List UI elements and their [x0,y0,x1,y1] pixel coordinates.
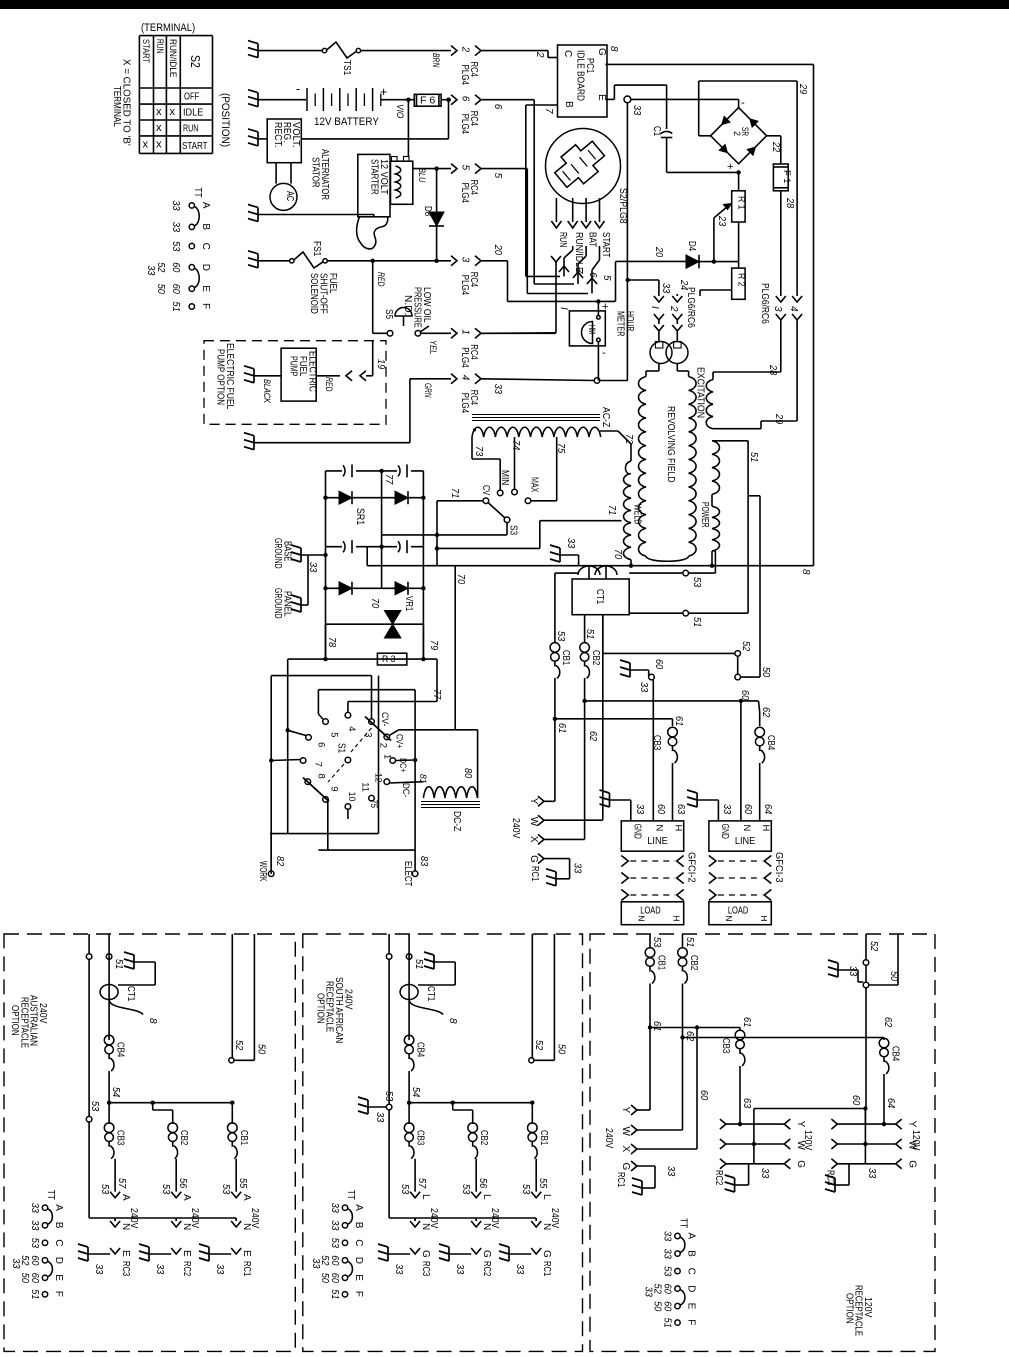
svg-text:x: x [156,139,162,151]
svg-text:8: 8 [608,46,619,52]
svg-text:8: 8 [147,1018,158,1024]
svg-text:AC: AC [284,191,295,201]
svg-text:C: C [200,243,211,250]
svg-text:RUN: RUN [155,39,166,53]
svg-text:START: START [141,39,152,63]
svg-text:52: 52 [233,1040,244,1051]
svg-text:OPTION: OPTION [9,1005,20,1036]
svg-text:G: G [596,48,607,56]
svg-text:H: H [671,916,680,922]
svg-text:51: 51 [684,937,695,947]
svg-text:CB3: CB3 [415,1130,426,1146]
svg-text:F: F [53,1291,64,1297]
svg-text:60: 60 [742,804,753,815]
svg-text:START: START [600,232,611,258]
svg-text:S2: S2 [188,55,202,68]
svg-text:33: 33 [634,804,645,815]
svg-text:51: 51 [413,959,424,969]
svg-text:GND: GND [631,824,642,839]
svg-text:GFCI-3: GFCI-3 [773,852,784,883]
svg-text:+: + [602,301,609,313]
svg-text:REVOLVING FIELD: REVOLVING FIELD [665,406,676,483]
svg-text:54: 54 [410,1087,421,1098]
svg-text:33: 33 [393,1264,404,1275]
svg-text:6: 6 [316,742,327,747]
svg-text:CB2: CB2 [688,955,699,971]
svg-text:54: 54 [110,1087,121,1098]
svg-text:PLG4: PLG4 [459,275,470,296]
svg-text:TERMINAL: TERMINAL [111,86,122,127]
svg-text:61: 61 [741,1017,752,1027]
svg-text:-: - [296,82,300,96]
svg-text:A: A [120,1194,131,1201]
svg-text:S1: S1 [335,743,346,754]
svg-text:33: 33 [145,265,156,276]
svg-text:GRN: GRN [423,383,434,398]
svg-text:x: x [156,122,162,134]
svg-text:33: 33 [638,682,649,693]
svg-text:GROUND: GROUND [272,588,283,619]
svg-text:BLACK: BLACK [262,379,273,404]
svg-text:N: N [636,916,645,922]
svg-text:62: 62 [882,1017,893,1028]
svg-text:33: 33 [662,1249,673,1260]
svg-text:F 1: F 1 [782,170,792,184]
svg-text:METER: METER [615,311,626,337]
svg-text:51: 51 [29,1289,40,1299]
svg-text:75: 75 [369,799,379,808]
svg-text:57: 57 [116,1178,127,1189]
svg-text:A: A [200,202,211,209]
svg-text:1: 1 [382,754,393,759]
svg-text:2: 2 [460,46,471,53]
svg-text:WORK: WORK [257,861,268,882]
svg-text:-: - [602,347,606,359]
svg-text:Y: Y [620,1107,631,1114]
svg-text:RED: RED [376,272,387,287]
svg-text:52: 52 [155,262,166,273]
svg-text:50: 50 [155,284,166,295]
svg-text:SOLENOID: SOLENOID [308,273,319,314]
svg-text:B: B [563,101,574,108]
svg-text:LINE: LINE [647,836,668,847]
svg-text:RC2: RC2 [481,1261,492,1277]
svg-text:33: 33 [847,966,858,977]
svg-text:73: 73 [473,446,484,457]
svg-text:CB4: CB4 [765,735,776,751]
svg-text:R 2: R 2 [737,273,747,287]
svg-text:F: F [353,1291,364,1297]
svg-text:60: 60 [655,804,666,815]
svg-text:S3: S3 [508,525,519,536]
svg-text:(POSITION): (POSITION) [219,93,231,147]
svg-text:F 6: F 6 [420,96,436,107]
svg-text:33: 33 [565,538,576,549]
svg-text:33: 33 [10,1258,21,1269]
svg-text:33: 33 [374,1112,385,1123]
svg-text:64: 64 [762,804,773,815]
svg-text:I: I [649,306,660,309]
svg-text:1: 1 [460,329,471,335]
svg-text:RC2: RC2 [181,1261,192,1277]
svg-text:D8: D8 [422,206,433,217]
svg-text:E: E [241,1250,252,1257]
svg-text:TT: TT [192,187,203,197]
svg-text:8: 8 [447,1018,458,1024]
svg-text:53: 53 [555,631,566,642]
svg-text:53: 53 [329,1238,340,1249]
svg-text:PLG6/RC6: PLG6/RC6 [759,283,770,324]
svg-text:G: G [907,1160,918,1168]
svg-text:YEL: YEL [428,340,439,354]
svg-text:72: 72 [623,434,634,445]
svg-text:H: H [673,825,684,832]
svg-text:60: 60 [850,1095,861,1106]
svg-text:RC3: RC3 [420,1261,431,1277]
svg-text:A: A [181,1194,192,1201]
svg-text:CV-: CV- [380,712,391,726]
svg-text:33: 33 [154,1264,165,1275]
svg-text:53: 53 [460,1184,471,1195]
svg-text:CB1: CB1 [238,1130,249,1146]
svg-text:56: 56 [477,1178,488,1189]
svg-text:TT: TT [345,1190,356,1200]
svg-text:3: 3 [460,257,471,263]
svg-text:Y: Y [907,1121,918,1128]
svg-text:S5: S5 [383,309,394,320]
svg-text:R 1: R 1 [737,196,747,210]
svg-text:50: 50 [319,1273,330,1284]
svg-text:X: X [528,836,539,843]
svg-text:70: 70 [612,549,623,560]
svg-text:W: W [620,1127,631,1137]
svg-text:12: 12 [373,773,384,783]
svg-text:x: x [170,106,176,118]
svg-text:240V: 240V [249,1208,260,1229]
svg-text:D4: D4 [686,241,697,252]
svg-text:60: 60 [653,659,664,670]
svg-text:53: 53 [29,1238,40,1249]
svg-text:10: 10 [347,792,358,802]
svg-text:E: E [120,1250,131,1257]
svg-text:5: 5 [460,165,471,171]
svg-text:53: 53 [399,1184,410,1195]
svg-text:82: 82 [274,856,285,867]
svg-text:33: 33 [662,1231,673,1242]
svg-text:B: B [353,1222,364,1229]
svg-text:22: 22 [770,141,781,153]
svg-text:GFCI-2: GFCI-2 [685,852,696,883]
svg-text:51: 51 [748,452,759,462]
svg-text:51: 51 [662,1318,673,1328]
svg-text:20: 20 [492,244,503,256]
svg-text:6: 6 [587,272,598,278]
svg-text:STATOR: STATOR [310,157,321,188]
svg-text:TS1: TS1 [341,60,352,76]
svg-text:-: - [741,97,745,109]
svg-text:E: E [353,1274,364,1281]
svg-text:PLG6/RC6: PLG6/RC6 [685,287,696,328]
svg-text:E: E [596,94,607,101]
svg-text:RUN: RUN [183,124,198,135]
svg-text:33: 33 [454,1264,465,1275]
svg-text:50: 50 [256,1044,267,1055]
svg-text:D: D [686,1285,697,1292]
svg-text:DC-Z: DC-Z [451,811,462,831]
svg-text:CB4: CB4 [890,1046,901,1062]
svg-text:8: 8 [800,569,811,575]
svg-text:D: D [353,1257,364,1264]
svg-text:3: 3 [772,306,783,312]
svg-text:9: 9 [329,786,340,791]
svg-text:PUMP OPTION: PUMP OPTION [215,349,226,405]
svg-text:6: 6 [460,96,471,102]
svg-text:23: 23 [716,215,727,227]
svg-text:2: 2 [534,51,545,58]
svg-text:74: 74 [510,440,521,451]
svg-text:W: W [528,817,539,827]
svg-text:SR1: SR1 [354,508,366,525]
svg-text:G: G [795,1160,806,1168]
svg-text:2: 2 [668,305,679,312]
svg-text:GND: GND [719,824,730,839]
svg-text:56: 56 [177,1178,188,1189]
svg-text:VIO: VIO [395,104,406,119]
svg-text:2: 2 [732,131,742,136]
svg-text:A: A [241,1194,252,1201]
svg-text:WELD: WELD [632,504,643,524]
svg-text:E: E [200,285,211,292]
svg-text:53: 53 [89,1101,100,1112]
svg-text:RUN: RUN [557,232,568,247]
svg-text:50: 50 [760,667,771,678]
svg-text:7: 7 [543,108,554,114]
svg-text:33: 33 [759,1168,770,1179]
svg-text:BLU: BLU [417,168,428,183]
svg-text:240V: 240V [603,1128,614,1149]
svg-text:50: 50 [19,1273,30,1284]
svg-text:A: A [53,1204,64,1211]
svg-text:33: 33 [29,1220,40,1231]
svg-text:A: A [686,1233,697,1240]
svg-text:33: 33 [631,105,642,116]
svg-text:77: 77 [431,689,442,700]
svg-text:2: 2 [378,743,389,748]
svg-text:CV+: CV+ [394,734,405,749]
svg-text:120V: 120V [910,1130,921,1151]
svg-text:33: 33 [329,1220,340,1231]
svg-text:Y: Y [528,798,539,805]
svg-text:B: B [53,1222,64,1229]
svg-text:E: E [686,1303,697,1310]
svg-text:PLG4: PLG4 [459,393,470,414]
svg-text:x: x [156,106,162,118]
svg-text:DC-: DC- [401,783,412,797]
svg-text:33: 33 [660,283,671,294]
svg-text:x: x [143,139,149,151]
svg-text:RC1: RC1 [241,1261,252,1277]
svg-text:33: 33 [307,562,318,573]
svg-text:240V: 240V [510,818,521,839]
svg-text:55: 55 [237,1178,248,1189]
svg-text:53: 53 [691,577,702,588]
svg-text:53: 53 [99,1184,110,1195]
svg-text:RC1: RC1 [541,1261,552,1277]
svg-text:C: C [562,50,573,57]
svg-text:L: L [420,1194,431,1200]
svg-text:D: D [200,264,211,271]
svg-text:ELECT: ELECT [402,861,413,887]
svg-text:60: 60 [170,284,181,295]
svg-text:51: 51 [170,302,181,312]
svg-text:6: 6 [492,104,503,110]
svg-text:H: H [761,825,772,832]
svg-text:33: 33 [721,804,732,815]
svg-text:CT1: CT1 [125,986,136,1002]
svg-text:53: 53 [170,241,181,252]
svg-text:CB3: CB3 [115,1130,126,1146]
svg-text:BAT: BAT [587,232,598,247]
svg-text:MAX: MAX [529,477,540,493]
svg-text:PLG4: PLG4 [459,65,470,86]
svg-text:START: START [182,141,208,152]
svg-text:FS1: FS1 [311,241,322,257]
svg-text:63: 63 [675,804,686,815]
svg-text:H: H [759,916,768,922]
svg-text:IDLE BOARD: IDLE BOARD [575,50,586,101]
svg-text:4: 4 [347,726,358,731]
svg-text:28: 28 [784,197,795,209]
svg-text:62: 62 [587,731,598,742]
svg-text:G: G [541,1250,552,1258]
svg-text:RED: RED [324,377,335,392]
svg-text:33: 33 [643,1287,654,1298]
svg-text:OFF: OFF [184,92,199,103]
svg-text:78: 78 [326,637,337,648]
svg-text:CB2: CB2 [478,1130,489,1146]
svg-text:64: 64 [885,1098,896,1109]
svg-text:C1: C1 [651,126,662,137]
svg-text:VR1: VR1 [403,596,414,612]
svg-text:12V BATTERY: 12V BATTERY [314,116,379,128]
svg-text:53: 53 [651,937,662,948]
svg-text:61: 61 [651,1021,662,1031]
svg-text:CB4: CB4 [115,1042,126,1058]
svg-text:55: 55 [537,1178,548,1189]
svg-text:51: 51 [584,629,595,639]
svg-text:AC-Z: AC-Z [600,407,611,427]
svg-text:CB1: CB1 [560,650,571,666]
svg-text:60: 60 [698,1090,709,1101]
svg-text:IDLE: IDLE [183,108,204,119]
svg-text:4: 4 [460,375,471,381]
svg-text:51: 51 [329,1289,340,1299]
svg-text:62: 62 [760,707,771,718]
svg-text:71: 71 [449,488,460,498]
svg-text:53: 53 [520,1184,531,1195]
svg-text:5: 5 [329,732,340,737]
svg-text:33: 33 [572,863,583,874]
svg-text:CB2: CB2 [590,650,601,666]
svg-text:G: G [420,1250,431,1258]
svg-text:53: 53 [220,1184,231,1195]
svg-text:33: 33 [214,1264,225,1275]
svg-text:28: 28 [767,364,778,376]
svg-text:OPTION: OPTION [314,993,325,1024]
svg-text:83: 83 [418,856,429,867]
svg-text:51: 51 [113,959,124,969]
svg-text:(TERMINAL): (TERMINAL) [141,22,195,34]
svg-text:TT: TT [45,1190,56,1200]
svg-text:N: N [724,916,733,922]
svg-text:240V: 240V [549,1208,560,1229]
svg-text:RC1: RC1 [615,1172,626,1188]
svg-text:20: 20 [653,246,664,258]
svg-text:PLG4: PLG4 [459,347,470,368]
svg-text:52: 52 [533,1040,544,1051]
svg-text:A: A [353,1204,364,1211]
svg-text:120V: 120V [802,1130,813,1151]
svg-text:HM: HM [587,325,597,334]
svg-text:C: C [353,1239,364,1246]
svg-text:CB2: CB2 [178,1130,189,1146]
svg-text:61: 61 [556,723,567,733]
svg-text:33: 33 [170,200,181,211]
svg-text:L: L [541,1194,552,1200]
svg-text:PUMP: PUMP [288,356,299,377]
svg-text:PLG4: PLG4 [459,114,470,135]
svg-text:29: 29 [797,83,808,95]
svg-text:11: 11 [361,782,372,792]
svg-text:I: I [558,307,569,310]
svg-text:E: E [181,1250,192,1257]
svg-text:51: 51 [691,617,702,627]
svg-text:S2/PLG8: S2/PLG8 [617,188,628,224]
svg-text:MIN: MIN [499,470,510,485]
svg-text:X: X [620,1146,631,1153]
svg-text:33: 33 [492,384,503,395]
svg-text:CT1: CT1 [594,589,605,605]
svg-text:F: F [200,303,211,309]
svg-text:LINE: LINE [735,836,756,847]
svg-text:53: 53 [662,1266,673,1277]
svg-text:CB1: CB1 [538,1130,549,1146]
svg-text:G: G [528,855,539,863]
svg-text:29: 29 [773,413,784,425]
svg-text:CT1: CT1 [425,986,436,1002]
svg-text:+: + [380,85,387,99]
svg-text:POWER: POWER [699,502,710,528]
svg-text:F: F [686,1319,697,1325]
svg-text:Y: Y [795,1121,806,1128]
svg-text:N: N [742,825,753,832]
svg-text:GROUND: GROUND [272,538,283,569]
svg-text:33: 33 [310,1258,321,1269]
svg-text:4: 4 [788,306,799,312]
svg-text:B: B [686,1250,697,1257]
svg-text:53: 53 [160,1184,171,1195]
svg-text:CB3: CB3 [720,1038,731,1054]
svg-text:C: C [686,1268,697,1275]
svg-text:R 3: R 3 [382,654,396,664]
svg-text:L: L [481,1194,492,1200]
svg-text:33: 33 [329,1203,340,1214]
svg-text:33: 33 [866,1168,877,1179]
svg-text:71: 71 [606,505,617,515]
svg-text:77: 77 [383,474,394,485]
svg-text:RC1: RC1 [529,866,540,882]
svg-text:PLG4: PLG4 [459,183,470,204]
